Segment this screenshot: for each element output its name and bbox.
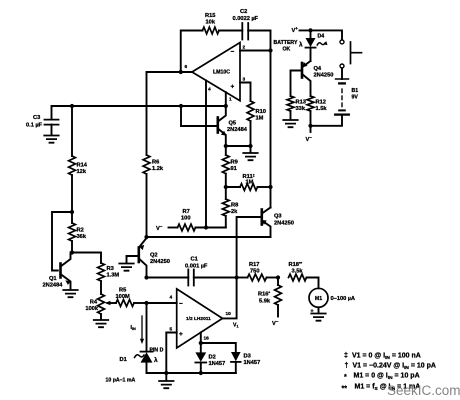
svg-text:LM10C: LM10C — [213, 70, 230, 76]
svg-text:12k: 12k — [77, 169, 87, 175]
svg-text:R13: R13 — [296, 100, 306, 106]
node rail-basejog — [179, 104, 183, 108]
svg-text:V−: V− — [306, 135, 313, 143]
svg-text:†: † — [345, 363, 349, 370]
svg-text:1.2k: 1.2k — [152, 166, 164, 172]
wire emitter to R10 ground node — [226, 145, 251, 147]
svg-text:2N2484: 2N2484 — [227, 127, 248, 133]
svg-text:100M: 100M — [116, 294, 130, 300]
svg-text:D4: D4 — [318, 34, 325, 40]
svg-text:BATTERY: BATTERY — [274, 40, 298, 46]
op-amp U1 LM10C — [185, 43, 246, 103]
svg-text:D2: D2 — [209, 355, 216, 361]
wire Q5 base jog — [181, 106, 217, 126]
node R9-R8-R11 — [224, 185, 228, 189]
svg-text:R14: R14 — [77, 163, 88, 169]
node R11-pin2 vertical — [268, 185, 272, 189]
svg-text:V−: V− — [272, 319, 279, 327]
node C1-R17-output — [235, 275, 239, 279]
svg-text:λ: λ — [299, 41, 303, 49]
node R17-R16-R18 — [276, 275, 280, 279]
svg-text:R17: R17 — [249, 262, 259, 268]
transistor Q3 — [261, 208, 294, 238]
node R2-Q1-R3 — [70, 250, 74, 254]
svg-text:3.5k: 3.5k — [292, 269, 304, 275]
svg-text:100: 100 — [181, 216, 191, 222]
node rail-pin1 — [224, 104, 228, 108]
svg-text:0.001 µF: 0.001 µF — [185, 264, 208, 270]
transistor Q1 — [43, 253, 71, 289]
ground at Q2 base — [119, 264, 133, 271]
transistor Q4 — [291, 61, 334, 96]
node LED anode — [308, 28, 312, 32]
svg-text:Q3: Q3 — [274, 214, 282, 220]
resistor R13 — [287, 96, 306, 119]
svg-text:SeekIC.com: SeekIC.com — [387, 383, 460, 398]
node rail-C3R14 — [70, 104, 74, 108]
svg-text:1.3M: 1.3M — [107, 273, 120, 279]
svg-text:10 pA–1 mA: 10 pA–1 mA — [106, 378, 136, 384]
photodiode D1 — [120, 303, 164, 373]
resistor R18 — [289, 261, 319, 289]
potentiometer R4 — [85, 294, 116, 319]
svg-text:M1 = 0 @ IIN = 10 pA: M1 = 0 @ IIN = 10 pA — [354, 373, 420, 381]
resistor R14 — [69, 106, 88, 212]
resistor R16 — [258, 278, 281, 328]
svg-text:4: 4 — [208, 87, 211, 93]
svg-text:Q2: Q2 — [150, 253, 158, 259]
ground at R10 — [243, 153, 257, 160]
ground at bottom rail — [165, 373, 167, 380]
svg-text:0.1 µF: 0.1 µF — [26, 123, 43, 129]
svg-text:R10: R10 — [256, 109, 266, 115]
wire rail y237 — [147, 236, 271, 238]
svg-text:λ: λ — [154, 356, 158, 364]
svg-text:D3: D3 — [244, 354, 251, 360]
ground at M1 — [311, 314, 325, 321]
svg-text:−: − — [179, 301, 183, 308]
meter M1 — [309, 288, 355, 314]
wire pin5 to ground rail — [166, 333, 176, 374]
svg-text:R7: R7 — [183, 209, 190, 215]
ground at R13 — [283, 120, 297, 127]
node rail ground — [164, 371, 168, 375]
node feedback-output junction — [179, 70, 183, 74]
svg-text:10: 10 — [226, 311, 232, 317]
node pin4-R7 — [204, 225, 208, 229]
resistor R12 — [307, 96, 327, 126]
wire Q1 base loop — [52, 212, 72, 271]
current arrow IIN — [131, 316, 145, 344]
svg-text:2N4250: 2N4250 — [274, 221, 294, 227]
svg-text:+: + — [231, 84, 235, 91]
node Q2col-R5-pin4 — [144, 301, 148, 305]
svg-text:R2: R2 — [77, 228, 84, 234]
wire pin16 stub — [200, 332, 202, 343]
svg-text:V1 = −0.24V @ IIN = 10 pA: V1 = −0.24V @ IIN = 10 pA — [353, 363, 436, 371]
svg-text:0.0022 µF: 0.0022 µF — [233, 16, 259, 22]
node rail D2 — [199, 371, 203, 375]
wire pin2 vertical to R11 and Q3 — [270, 51, 272, 208]
svg-text:C3: C3 — [33, 115, 40, 121]
wire output stub — [223, 278, 237, 319]
svg-text:Q4: Q4 — [314, 66, 322, 72]
svg-text:V1 = 0 @ IIN = 100 nA: V1 = 0 @ IIN = 100 nA — [352, 353, 421, 361]
resistor R3 — [98, 263, 120, 294]
resistor R6 — [143, 155, 164, 237]
resistor R11 — [226, 173, 271, 191]
svg-text:1N457: 1N457 — [244, 360, 261, 366]
resistor R5 — [116, 288, 147, 307]
wire op-amp output to left — [147, 71, 193, 73]
wire pin4 vertical — [205, 80, 207, 227]
wire main rail y106 — [52, 105, 226, 107]
node pin16-D2-D3 — [199, 341, 203, 345]
svg-text:‡: ‡ — [344, 353, 348, 360]
svg-text:1M: 1M — [256, 116, 264, 122]
svg-text:V+: V+ — [292, 26, 299, 34]
svg-text:Q5: Q5 — [229, 121, 237, 127]
svg-text:2N2484: 2N2484 — [43, 283, 64, 289]
LED D4 — [299, 30, 327, 61]
wire battery bottom row — [311, 115, 343, 126]
svg-text:36k: 36k — [77, 234, 87, 240]
capacitor C2 — [233, 9, 259, 40]
svg-text:91: 91 — [231, 166, 237, 172]
resistor R17 — [237, 262, 278, 281]
wire Q3 base to output node — [237, 217, 262, 278]
capacitor C1 — [147, 257, 237, 286]
svg-text:1: 1 — [229, 97, 232, 103]
svg-text:16: 16 — [204, 336, 210, 342]
wire pin4 row LH2011 — [147, 302, 177, 304]
wire pin6 vertical through R6 — [146, 72, 148, 155]
svg-text:R18**: R18** — [289, 261, 303, 269]
wire V- stub — [310, 126, 312, 132]
wire D3 branch — [201, 343, 236, 352]
wire V+ rail — [300, 30, 343, 39]
diode D2 — [195, 343, 225, 373]
svg-text:2k: 2k — [231, 209, 238, 215]
svg-text:33k: 33k — [296, 106, 306, 112]
node R6-Q2-rail — [144, 235, 148, 239]
wire R3 branch — [72, 253, 101, 264]
battery B1 — [335, 68, 358, 114]
svg-text:R15: R15 — [205, 13, 215, 19]
svg-text:1.5k: 1.5k — [316, 106, 328, 112]
svg-text:−: − — [231, 49, 235, 56]
resistor R2 — [69, 212, 87, 253]
svg-text:4: 4 — [170, 295, 173, 301]
svg-text:R3: R3 — [107, 266, 114, 272]
svg-text:2N4250: 2N4250 — [150, 259, 170, 265]
svg-text:R6: R6 — [152, 160, 159, 166]
svg-text:PIN D: PIN D — [150, 348, 164, 354]
node R12 V- battery — [308, 124, 312, 128]
node R10 ground junction — [248, 144, 252, 148]
capacitor C3 — [26, 106, 59, 134]
svg-text:R16*: R16* — [258, 290, 270, 298]
svg-text:Q1: Q1 — [49, 276, 57, 282]
svg-text:100k: 100k — [85, 306, 98, 312]
svg-text:0–100 µA: 0–100 µA — [331, 296, 356, 302]
ground at R4 — [94, 320, 108, 327]
svg-text:R5: R5 — [119, 288, 126, 294]
node Q2 collector C1 — [144, 275, 148, 279]
wire R10 bottom — [250, 121, 252, 152]
svg-text:5.9k: 5.9k — [259, 299, 271, 305]
resistor R9 — [222, 146, 237, 187]
svg-text:750: 750 — [250, 269, 260, 275]
wire pin2 stub — [240, 50, 271, 52]
ground at Q1 emitter — [63, 290, 77, 297]
svg-text:V−: V− — [156, 224, 163, 232]
svg-text:R8: R8 — [231, 203, 238, 209]
svg-text:*: * — [344, 374, 347, 381]
svg-text:1M: 1M — [246, 180, 254, 186]
svg-text:**: ** — [342, 386, 348, 393]
transistor Q5 — [218, 106, 248, 146]
resistor R8 — [222, 187, 238, 228]
svg-text:1/2 LH2011: 1/2 LH2011 — [186, 316, 211, 322]
wire bottom ground rail — [147, 372, 236, 374]
wire pin3 stub — [240, 83, 251, 102]
svg-text:V1: V1 — [233, 323, 239, 329]
svg-text:6: 6 — [185, 64, 188, 70]
wire feedback top — [181, 31, 271, 73]
node Q5 emitter — [224, 144, 228, 148]
svg-text:R9: R9 — [231, 160, 238, 166]
svg-text:OK: OK — [283, 47, 291, 53]
svg-text:+: + — [179, 331, 183, 338]
node pin2 junction — [268, 48, 272, 52]
svg-text:1N457: 1N457 — [209, 361, 226, 367]
wire pin1 stub — [225, 92, 227, 106]
svg-text:2N4250: 2N4250 — [314, 73, 334, 79]
svg-text:C1: C1 — [191, 257, 198, 263]
resistor R10 — [247, 101, 266, 122]
resistor R7 — [178, 209, 226, 231]
svg-text:D1: D1 — [120, 357, 127, 363]
op-amp U2 LH2011 — [170, 289, 239, 348]
ground at C3 — [44, 136, 58, 143]
svg-text:M1: M1 — [315, 296, 322, 302]
node R14-R2-loop — [70, 210, 74, 214]
switch S1 — [340, 40, 362, 68]
svg-text:C2: C2 — [240, 9, 247, 15]
svg-text:10k: 10k — [206, 20, 216, 26]
diode D3 — [231, 352, 260, 373]
svg-text:R4: R4 — [90, 300, 98, 306]
svg-text:B1: B1 — [352, 88, 359, 94]
svg-text:IIN: IIN — [131, 325, 137, 331]
resistor R15 — [203, 13, 220, 34]
svg-text:R12: R12 — [316, 100, 326, 106]
svg-text:9V: 9V — [352, 95, 359, 101]
transistor Q2 — [127, 238, 170, 278]
